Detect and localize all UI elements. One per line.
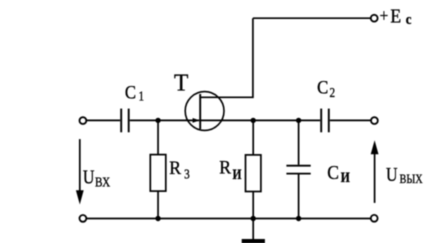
capacitor C1 bbox=[121, 109, 129, 133]
wire node B down to Ri bbox=[252, 120, 254, 155]
transistor T gate arrow bbox=[193, 118, 200, 123]
transistor source wire to node B and node C bbox=[200, 119, 298, 121]
node B junction dot bbox=[251, 118, 256, 123]
label Uvyx bbox=[386, 163, 398, 185]
label +Ec bbox=[380, 5, 389, 25]
svg-text:U: U bbox=[83, 166, 95, 188]
wire Ci to bottom rail bbox=[298, 175, 300, 219]
wire node A down to R3 bbox=[157, 120, 159, 154]
transistor T channel line bbox=[199, 94, 201, 129]
svg-text:+: + bbox=[380, 5, 389, 25]
ground bar bbox=[242, 239, 265, 243]
svg-text:C: C bbox=[317, 77, 328, 98]
Uvyx arrowhead bbox=[371, 140, 379, 154]
Uvyx arrow shaft bbox=[374, 153, 376, 203]
svg-text:2: 2 bbox=[330, 85, 336, 100]
svg-text:И: И bbox=[341, 169, 350, 186]
input terminal bbox=[80, 117, 87, 124]
bottom rail dot at Ri / ground bbox=[251, 216, 256, 221]
svg-text:c: c bbox=[406, 12, 412, 28]
label Uvx bbox=[83, 166, 95, 188]
svg-text:E: E bbox=[390, 6, 401, 28]
wire drain corner to +Ec terminal bbox=[253, 17, 371, 19]
svg-text:T: T bbox=[174, 70, 189, 96]
svg-text:И: И bbox=[233, 166, 242, 183]
svg-text:C: C bbox=[327, 162, 339, 184]
svg-text:ВЫХ: ВЫХ bbox=[400, 172, 424, 186]
transistor T circle bbox=[185, 92, 224, 131]
svg-text:C: C bbox=[125, 81, 136, 102]
label C1 bbox=[125, 81, 136, 102]
wire C1 to transistor gate bbox=[130, 119, 200, 121]
input terminal bottom bbox=[80, 215, 87, 222]
node A junction dot bbox=[155, 118, 160, 123]
resistor Ri body bbox=[246, 155, 261, 192]
label C2 bbox=[317, 77, 328, 98]
label Ri bbox=[219, 157, 232, 178]
output terminal top bbox=[371, 117, 378, 124]
svg-text:3: 3 bbox=[184, 166, 190, 181]
wire C2 to output terminal bbox=[330, 119, 371, 121]
Uvx arrow shaft bbox=[79, 139, 81, 192]
Uvx arrowhead bbox=[76, 190, 84, 204]
svg-text:1: 1 bbox=[139, 88, 145, 103]
capacitor Ci bbox=[286, 166, 310, 174]
wire node C to C2 bbox=[299, 119, 321, 121]
node C junction dot bbox=[296, 118, 301, 123]
+Ec terminal bbox=[371, 15, 378, 22]
label R3 bbox=[169, 157, 182, 178]
resistor R3 body bbox=[150, 155, 166, 192]
bottom rail dot at Ci bbox=[296, 216, 301, 221]
wire input terminal to C1 bbox=[87, 119, 121, 121]
ground stub wire bbox=[252, 219, 254, 240]
output terminal bottom bbox=[371, 215, 378, 222]
bottom rail dot at R3 bbox=[155, 216, 160, 221]
svg-text:R: R bbox=[169, 157, 182, 178]
wire R3 to bottom rail bbox=[157, 191, 159, 218]
svg-text:U: U bbox=[386, 163, 398, 185]
label T bbox=[174, 70, 189, 96]
svg-text:ВХ: ВХ bbox=[95, 174, 110, 189]
wire node C down to Ci bbox=[298, 120, 300, 164]
label Ci bbox=[327, 162, 339, 184]
svg-text:R: R bbox=[219, 157, 232, 178]
bottom rail wire bbox=[87, 218, 371, 220]
wire Ri to bottom rail bbox=[252, 192, 254, 219]
transistor T drain lead up bbox=[200, 18, 253, 97]
capacitor C2 bbox=[321, 109, 329, 133]
